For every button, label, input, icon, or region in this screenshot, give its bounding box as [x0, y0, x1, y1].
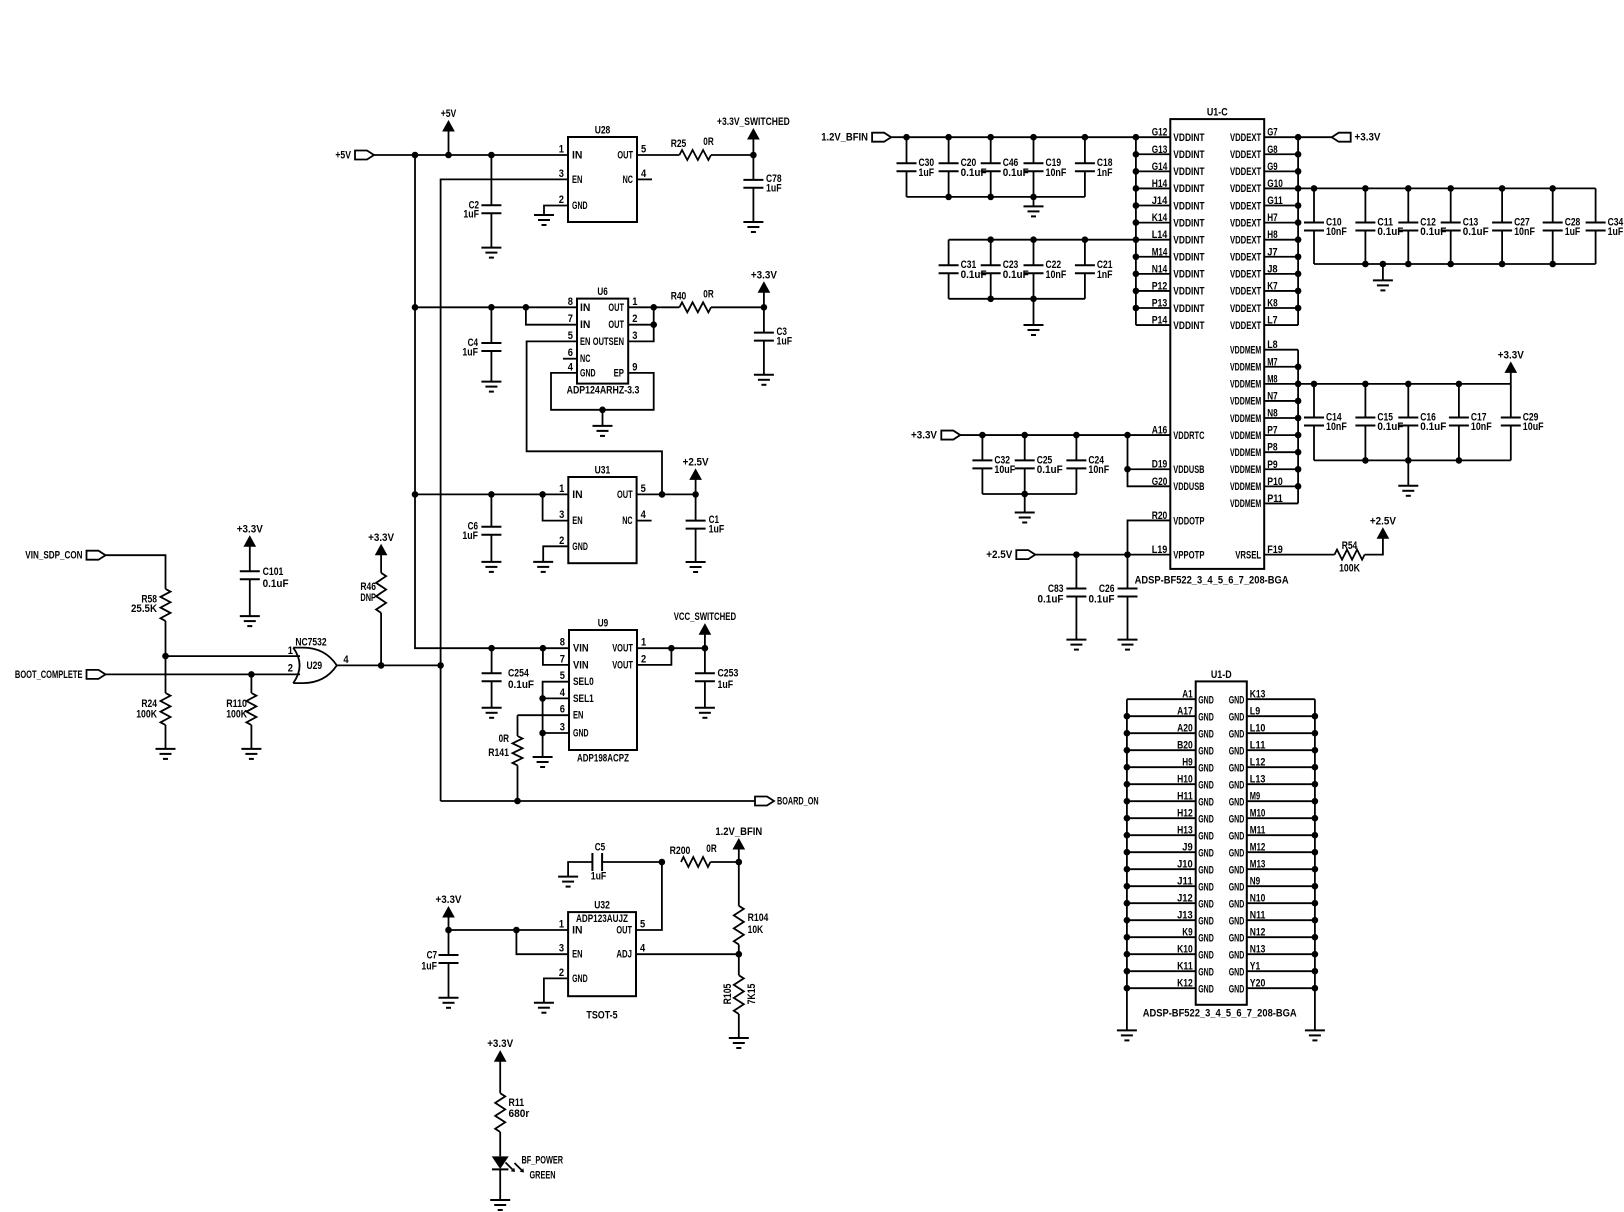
svg-text:VPPOTP: VPPOTP — [1173, 549, 1204, 561]
wire BOARD_ON net — [441, 800, 755, 802]
svg-text:GND: GND — [572, 200, 588, 212]
svg-text:GND: GND — [1198, 847, 1214, 859]
svg-text:H11: H11 — [1177, 791, 1193, 803]
svg-text:B20: B20 — [1177, 740, 1193, 752]
wire R105 ground stub — [738, 1014, 740, 1038]
svg-text:VDDMEM: VDDMEM — [1230, 498, 1261, 510]
svg-text:EN: EN — [572, 515, 582, 527]
svg-text:0R: 0R — [499, 733, 509, 745]
svg-text:10nF: 10nF — [1088, 464, 1109, 476]
svg-text:3: 3 — [559, 168, 564, 180]
svg-text:GREEN: GREEN — [530, 1170, 556, 1182]
svg-text:0.1uF: 0.1uF — [1377, 226, 1403, 238]
svg-text:VDDINT: VDDINT — [1173, 132, 1204, 144]
wire LED ground stub — [499, 1169, 501, 1200]
svg-text:0.1uF: 0.1uF — [263, 578, 289, 590]
svg-text:4: 4 — [641, 509, 647, 521]
svg-text:GND: GND — [1198, 881, 1214, 893]
svg-text:1uF: 1uF — [462, 346, 478, 358]
wire U31 GND pin — [543, 546, 568, 562]
svg-text:1nF: 1nF — [1097, 167, 1113, 179]
svg-text:3: 3 — [632, 330, 637, 342]
svg-text:K7: K7 — [1267, 280, 1277, 292]
resistor R54 — [1335, 540, 1365, 575]
resistor R24 — [136, 656, 170, 725]
svg-text:M14: M14 — [1152, 246, 1168, 258]
load switch U9 — [560, 618, 646, 751]
resistor R200 — [670, 843, 717, 867]
wire bank4 top rail — [1298, 383, 1511, 385]
wire U31 NC stub — [637, 520, 652, 522]
svg-text:VDDEXT: VDDEXT — [1230, 149, 1261, 161]
svg-text:A17: A17 — [1177, 706, 1193, 718]
svg-text:+3.3V: +3.3V — [436, 894, 463, 906]
svg-text:L10: L10 — [1250, 723, 1266, 735]
wire U28 EN net — [441, 179, 568, 801]
wire U32 EN tie — [516, 930, 568, 954]
svg-text:GND: GND — [1198, 762, 1214, 774]
flag +2.5V (VPPOTP) — [986, 549, 1035, 561]
svg-text:VDDMEM: VDDMEM — [1230, 430, 1261, 442]
svg-text:H7: H7 — [1267, 212, 1277, 224]
svg-text:0.1uF: 0.1uF — [1420, 421, 1446, 433]
ground U1-D right — [1305, 1030, 1325, 1040]
svg-text:GND: GND — [1198, 830, 1214, 842]
svg-text:VDDEXT: VDDEXT — [1230, 183, 1261, 195]
svg-text:1uF: 1uF — [766, 183, 782, 195]
junction U6 OUT — [650, 304, 657, 328]
wire U9 VIN rail junctions — [488, 645, 546, 652]
svg-text:N12: N12 — [1250, 927, 1266, 939]
svg-text:H12: H12 — [1177, 808, 1193, 820]
junction VPPOTP rail — [1073, 551, 1131, 558]
svg-text:3: 3 — [559, 509, 564, 521]
wire U6 NC stub — [563, 358, 577, 360]
svg-text:VIN_SDP_CON: VIN_SDP_CON — [25, 550, 82, 562]
wire U9 VIN pin7 — [543, 648, 569, 665]
svg-text:K14: K14 — [1152, 212, 1168, 224]
capacitor C29 — [1501, 384, 1544, 461]
wire G7 to +3.3V flag — [1298, 136, 1332, 138]
led BF_POWER GREEN — [492, 1156, 524, 1172]
junction +5V rail — [412, 152, 495, 159]
svg-text:OUT: OUT — [616, 925, 632, 937]
svg-text:VDDINT: VDDINT — [1173, 286, 1204, 298]
svg-text:VDDMEM: VDDMEM — [1230, 396, 1261, 408]
svg-text:GND: GND — [1198, 813, 1214, 825]
wire U6 IN pin7 — [526, 307, 577, 324]
wire U1-D right GND bus — [1314, 699, 1316, 1030]
junction U1-D left bus — [1124, 713, 1131, 992]
regulator U6 — [568, 286, 638, 384]
svg-text:H13: H13 — [1177, 825, 1193, 837]
wire bank2 ground stub — [1033, 299, 1035, 325]
svg-text:1.2V_BFIN: 1.2V_BFIN — [715, 826, 762, 838]
ground U9 — [533, 757, 553, 767]
wire U31 OUT — [637, 493, 696, 495]
power +2.5V arrow (C1) — [683, 456, 710, 494]
junction U6 EP loop — [599, 407, 606, 414]
svg-text:OUT: OUT — [617, 489, 633, 501]
svg-text:NC: NC — [580, 353, 590, 365]
wire R54 to +2.5V — [1365, 538, 1383, 554]
wire U6 GND-EP loop — [551, 373, 654, 410]
svg-text:1uF: 1uF — [919, 167, 935, 179]
svg-text:VDDINT: VDDINT — [1173, 252, 1204, 264]
resistor R58 — [131, 589, 171, 621]
capacitor C15 — [1355, 384, 1403, 461]
capacitor C26 — [1089, 555, 1138, 640]
svg-text:GND: GND — [1198, 864, 1214, 876]
svg-text:1.2V_BFIN: 1.2V_BFIN — [821, 132, 868, 144]
svg-text:OUT: OUT — [617, 150, 633, 162]
svg-text:680r: 680r — [509, 1108, 530, 1120]
svg-text:R104: R104 — [748, 912, 769, 924]
svg-text:P13: P13 — [1152, 298, 1168, 310]
junction VDDRTC rail dots — [979, 432, 1131, 439]
svg-text:IN: IN — [572, 489, 582, 501]
svg-text:VDDINT: VDDINT — [1173, 149, 1204, 161]
svg-text:VDDEXT: VDDEXT — [1230, 303, 1261, 315]
junction U1-C left bus — [1133, 134, 1140, 311]
svg-text:9: 9 — [632, 361, 637, 373]
wire U6 OUT bus — [628, 307, 679, 341]
ground C4 — [481, 382, 501, 392]
ground LED — [490, 1200, 510, 1210]
capacitor C20 — [939, 137, 987, 197]
svg-text:10nF: 10nF — [1514, 226, 1535, 238]
svg-text:0R: 0R — [703, 136, 713, 148]
capacitor C21 — [1075, 240, 1113, 299]
wire bank2 bottom rail — [949, 298, 1085, 300]
capacitor C34 — [1586, 188, 1624, 264]
svg-text:1: 1 — [288, 645, 293, 657]
capacitor C10 — [1304, 188, 1347, 264]
svg-text:DNP: DNP — [360, 592, 376, 604]
flag BOOT_COMPLETE — [15, 669, 106, 681]
svg-text:4: 4 — [560, 687, 566, 699]
resistor R25 — [671, 136, 714, 160]
svg-text:U29: U29 — [307, 660, 323, 672]
resistor R104 — [734, 862, 769, 945]
svg-text:0R: 0R — [703, 288, 713, 300]
svg-text:ADP123AUJZ: ADP123AUJZ — [576, 913, 628, 925]
wire U6 IN rail — [415, 306, 577, 308]
svg-text:GND: GND — [1229, 898, 1245, 910]
svg-text:+3.3V: +3.3V — [237, 523, 264, 535]
power +3.3V arrow (LED) — [487, 1038, 514, 1093]
IC U1-C ADSP-BF522 power pins — [1136, 107, 1298, 569]
svg-text:VDDEXT: VDDEXT — [1230, 132, 1261, 144]
power +5V arrow — [441, 108, 457, 155]
svg-text:J8: J8 — [1267, 263, 1277, 275]
junction U31 IN rail — [539, 491, 546, 498]
svg-text:U28: U28 — [595, 125, 611, 137]
resistor R110 — [226, 674, 256, 725]
svg-text:6: 6 — [568, 347, 573, 359]
svg-text:0.1uF: 0.1uF — [1420, 226, 1446, 238]
svg-text:+3.3V: +3.3V — [1498, 349, 1525, 361]
svg-text:VDDEXT: VDDEXT — [1230, 286, 1261, 298]
svg-text:R105: R105 — [722, 984, 734, 1005]
svg-text:VDDEXT: VDDEXT — [1230, 166, 1261, 178]
power 1.2V_BFIN arrow — [715, 826, 762, 862]
svg-text:J10: J10 — [1177, 859, 1193, 871]
wire U31 EN tie — [543, 494, 569, 520]
svg-text:VDDMEM: VDDMEM — [1230, 413, 1261, 425]
wire R200 to 1.2V node — [710, 861, 738, 863]
junction +3.3V node — [761, 304, 768, 311]
svg-text:VDDINT: VDDINT — [1173, 303, 1204, 315]
junction bank4 rail dots — [1311, 381, 1463, 388]
wire U1-C left VDDINT bus — [1135, 137, 1137, 325]
svg-text:H10: H10 — [1177, 774, 1193, 786]
wire R11 to LED — [499, 1132, 501, 1156]
junction U1-D right bus — [1312, 713, 1319, 992]
wire U1-D left GND bus — [1126, 699, 1128, 1030]
power +3.3V arrow (R46) — [368, 532, 395, 573]
svg-text:C5: C5 — [595, 842, 605, 854]
svg-text:ADSP-BF522_3_4_5_6_7_208-BGA: ADSP-BF522_3_4_5_6_7_208-BGA — [1135, 575, 1289, 587]
svg-text:10uF: 10uF — [994, 464, 1015, 476]
svg-text:U1-C: U1-C — [1207, 107, 1228, 119]
svg-text:2: 2 — [641, 653, 646, 665]
wire U1-C VDDMEM bus — [1297, 350, 1299, 504]
power flag +5V input — [335, 150, 374, 162]
svg-text:1uF: 1uF — [1565, 226, 1581, 238]
ground R110 — [241, 749, 261, 759]
svg-text:4: 4 — [641, 168, 647, 180]
junction bank3 rail dots — [1311, 185, 1556, 192]
resistor R141 — [488, 733, 522, 765]
svg-text:GND: GND — [1198, 966, 1214, 978]
wire U6 EN to +2.5V net — [527, 341, 662, 494]
junction +5V vertical — [412, 304, 419, 498]
svg-text:GND: GND — [1229, 915, 1245, 927]
capacitor C13 — [1441, 188, 1489, 264]
power +3.3V arrow (C3) — [751, 269, 778, 307]
junction bank5 bottom — [1021, 491, 1028, 498]
resistor R46 — [360, 573, 386, 613]
svg-text:0.1uF: 0.1uF — [961, 167, 987, 179]
capacitor C25 — [1015, 435, 1063, 494]
svg-text:VIN: VIN — [573, 659, 589, 671]
svg-text:VOUT: VOUT — [612, 659, 633, 671]
ground R24 — [156, 749, 176, 759]
capacitor C83 — [1038, 555, 1087, 640]
svg-text:0.1uF: 0.1uF — [1003, 269, 1029, 281]
junction R110 node — [248, 671, 255, 678]
svg-text:2: 2 — [559, 967, 564, 979]
svg-text:0.1uF: 0.1uF — [1463, 226, 1489, 238]
svg-text:L14: L14 — [1152, 229, 1168, 241]
svg-text:U31: U31 — [595, 465, 611, 477]
svg-text:A1: A1 — [1182, 689, 1192, 701]
svg-text:GND: GND — [1229, 779, 1245, 791]
svg-text:G10: G10 — [1267, 178, 1283, 190]
ground C83 — [1066, 640, 1086, 650]
svg-text:K10: K10 — [1177, 944, 1193, 956]
svg-text:G12: G12 — [1152, 127, 1168, 139]
wire gate output — [337, 664, 441, 666]
wire bank1 bottom rail — [907, 196, 1085, 198]
svg-text:EP: EP — [614, 367, 624, 379]
junction U9 VOUT — [668, 645, 708, 652]
wire VDDUSB tie — [1128, 435, 1171, 486]
ground C3 — [754, 375, 774, 385]
junction R46 node — [378, 662, 385, 669]
svg-text:IN: IN — [572, 925, 582, 937]
svg-text:N14: N14 — [1152, 263, 1168, 275]
svg-text:M12: M12 — [1250, 842, 1266, 854]
wire U32 OUT to C5 node — [636, 862, 662, 930]
svg-text:C253: C253 — [718, 667, 739, 679]
svg-text:ADP124ARHZ-3.3: ADP124ARHZ-3.3 — [567, 385, 640, 397]
wire U9 SEL0/SEL1/GND tie — [543, 682, 569, 757]
svg-text:0.1uF: 0.1uF — [508, 679, 534, 691]
svg-text:GND: GND — [1198, 796, 1214, 808]
svg-text:EN: EN — [573, 710, 583, 722]
svg-text:GND: GND — [1229, 932, 1245, 944]
svg-text:VDDINT: VDDINT — [1173, 166, 1204, 178]
capacitor C31 — [939, 240, 987, 299]
capacitor C7 — [421, 930, 458, 998]
wire bank4 ground stub — [1407, 460, 1409, 485]
svg-text:GND: GND — [1229, 983, 1245, 995]
svg-text:R25: R25 — [671, 138, 687, 150]
ground C2 — [481, 248, 501, 258]
svg-text:G14: G14 — [1152, 161, 1168, 173]
svg-text:K12: K12 — [1177, 978, 1193, 990]
svg-text:5: 5 — [560, 670, 565, 682]
capacitor C11 — [1355, 188, 1403, 264]
svg-text:1uF: 1uF — [463, 209, 479, 221]
ground C253 — [695, 708, 715, 718]
label ADSP-BF522 U1-C — [1135, 575, 1289, 587]
wire R40 to +3.3V node — [711, 306, 764, 308]
svg-text:GND: GND — [1198, 915, 1214, 927]
label ADSP-BF522 U1-D — [1143, 1008, 1297, 1020]
flag BOARD_ON — [755, 796, 819, 808]
wire 1.2V_BFIN rail — [891, 136, 1136, 138]
power +2.5V arrow (VRSEL) — [1370, 515, 1397, 538]
wire R110 ground stub — [250, 725, 252, 749]
svg-text:R200: R200 — [670, 845, 691, 857]
svg-text:N13: N13 — [1250, 944, 1266, 956]
wire VDDOTP tie — [1128, 520, 1171, 554]
svg-text:VDDUSB: VDDUSB — [1173, 464, 1204, 476]
svg-text:P11: P11 — [1267, 493, 1283, 505]
svg-text:ADP198ACPZ: ADP198ACPZ — [577, 753, 629, 765]
junction U1-C VDDMEM bus — [1295, 363, 1302, 489]
svg-text:GND: GND — [1229, 762, 1245, 774]
wire U32 GND pin — [544, 978, 568, 1002]
svg-text:G13: G13 — [1152, 144, 1168, 156]
svg-text:BOARD_ON: BOARD_ON — [777, 796, 819, 808]
svg-text:100K: 100K — [226, 709, 247, 721]
wire U9 VOUT — [637, 648, 705, 665]
svg-text:M10: M10 — [1250, 808, 1266, 820]
wire R25 to +3.3V_SWITCHED node — [711, 154, 753, 156]
svg-text:J9: J9 — [1182, 842, 1192, 854]
svg-text:IN: IN — [580, 302, 590, 314]
regulator U31 — [559, 465, 646, 564]
svg-text:VDDINT: VDDINT — [1173, 269, 1204, 281]
svg-text:VOUT: VOUT — [612, 643, 633, 655]
capacitor C32 — [972, 435, 1015, 494]
svg-text:7K15: 7K15 — [746, 984, 758, 1005]
capacitor C17 — [1449, 384, 1492, 461]
svg-text:GND: GND — [1198, 932, 1214, 944]
ground U28 — [534, 215, 554, 225]
svg-text:P14: P14 — [1152, 315, 1168, 327]
svg-text:L7: L7 — [1267, 315, 1277, 327]
svg-text:GND: GND — [1198, 898, 1214, 910]
svg-text:1uF: 1uF — [718, 679, 734, 691]
svg-text:J11: J11 — [1177, 876, 1193, 888]
svg-text:U1-D: U1-D — [1211, 669, 1232, 681]
wire VIN_SDP_CON to R58 — [106, 555, 166, 589]
svg-text:10nF: 10nF — [1046, 269, 1067, 281]
label ADP124ARHZ-3.3 — [567, 385, 640, 397]
svg-text:+3.3V: +3.3V — [1355, 132, 1382, 144]
capacitor C46 — [981, 137, 1029, 197]
svg-text:1uF: 1uF — [462, 530, 478, 542]
power +3.3V arrow (U32) — [436, 894, 463, 930]
svg-text:VDDMEM: VDDMEM — [1230, 464, 1261, 476]
svg-text:VDDINT: VDDINT — [1173, 200, 1204, 212]
wire bank2 top rail — [949, 239, 1136, 241]
svg-text:A20: A20 — [1177, 723, 1193, 735]
svg-text:L9: L9 — [1250, 706, 1260, 718]
svg-text:ADSP-BF522_3_4_5_6_7_208-BGA: ADSP-BF522_3_4_5_6_7_208-BGA — [1143, 1008, 1297, 1020]
svg-text:L11: L11 — [1250, 740, 1266, 752]
svg-text:GND: GND — [1198, 779, 1214, 791]
svg-text:VDDEXT: VDDEXT — [1230, 320, 1261, 332]
wire R46 to gate output — [380, 613, 382, 666]
svg-text:1: 1 — [559, 144, 564, 156]
capacitor C5 — [568, 842, 662, 883]
svg-text:0.1uF: 0.1uF — [1038, 594, 1064, 606]
svg-text:TSOT-5: TSOT-5 — [586, 1009, 617, 1021]
svg-text:+2.5V: +2.5V — [683, 456, 710, 468]
ground U1-D left — [1117, 1030, 1137, 1040]
capacitor C22 — [1024, 240, 1067, 299]
svg-text:+3.3V: +3.3V — [487, 1038, 514, 1050]
svg-text:H14: H14 — [1152, 178, 1168, 190]
svg-text:8: 8 — [560, 637, 565, 649]
svg-text:4: 4 — [640, 943, 646, 955]
junction bank1 bottom — [945, 194, 1036, 201]
svg-text:GND: GND — [1198, 728, 1214, 740]
svg-text:GND: GND — [1229, 949, 1245, 961]
svg-text:0.1uF: 0.1uF — [1377, 421, 1403, 433]
svg-text:K9: K9 — [1182, 927, 1192, 939]
label ADP198ACPZ — [577, 753, 629, 765]
ground U32 — [534, 1003, 554, 1013]
svg-text:VDDOTP: VDDOTP — [1173, 515, 1204, 527]
IC U1-D ADSP-BF522 ground pins — [1127, 669, 1315, 1005]
resistor R11 — [495, 1093, 530, 1132]
wire U28 OUT to R25 — [637, 154, 679, 156]
svg-text:R54: R54 — [1342, 540, 1358, 552]
svg-text:VRSEL: VRSEL — [1235, 549, 1261, 561]
svg-text:10nF: 10nF — [1326, 421, 1347, 433]
resistor R105 — [722, 954, 758, 1014]
svg-text:U32: U32 — [594, 900, 610, 912]
svg-text:7: 7 — [568, 313, 573, 325]
ground bank1 — [1024, 206, 1044, 216]
